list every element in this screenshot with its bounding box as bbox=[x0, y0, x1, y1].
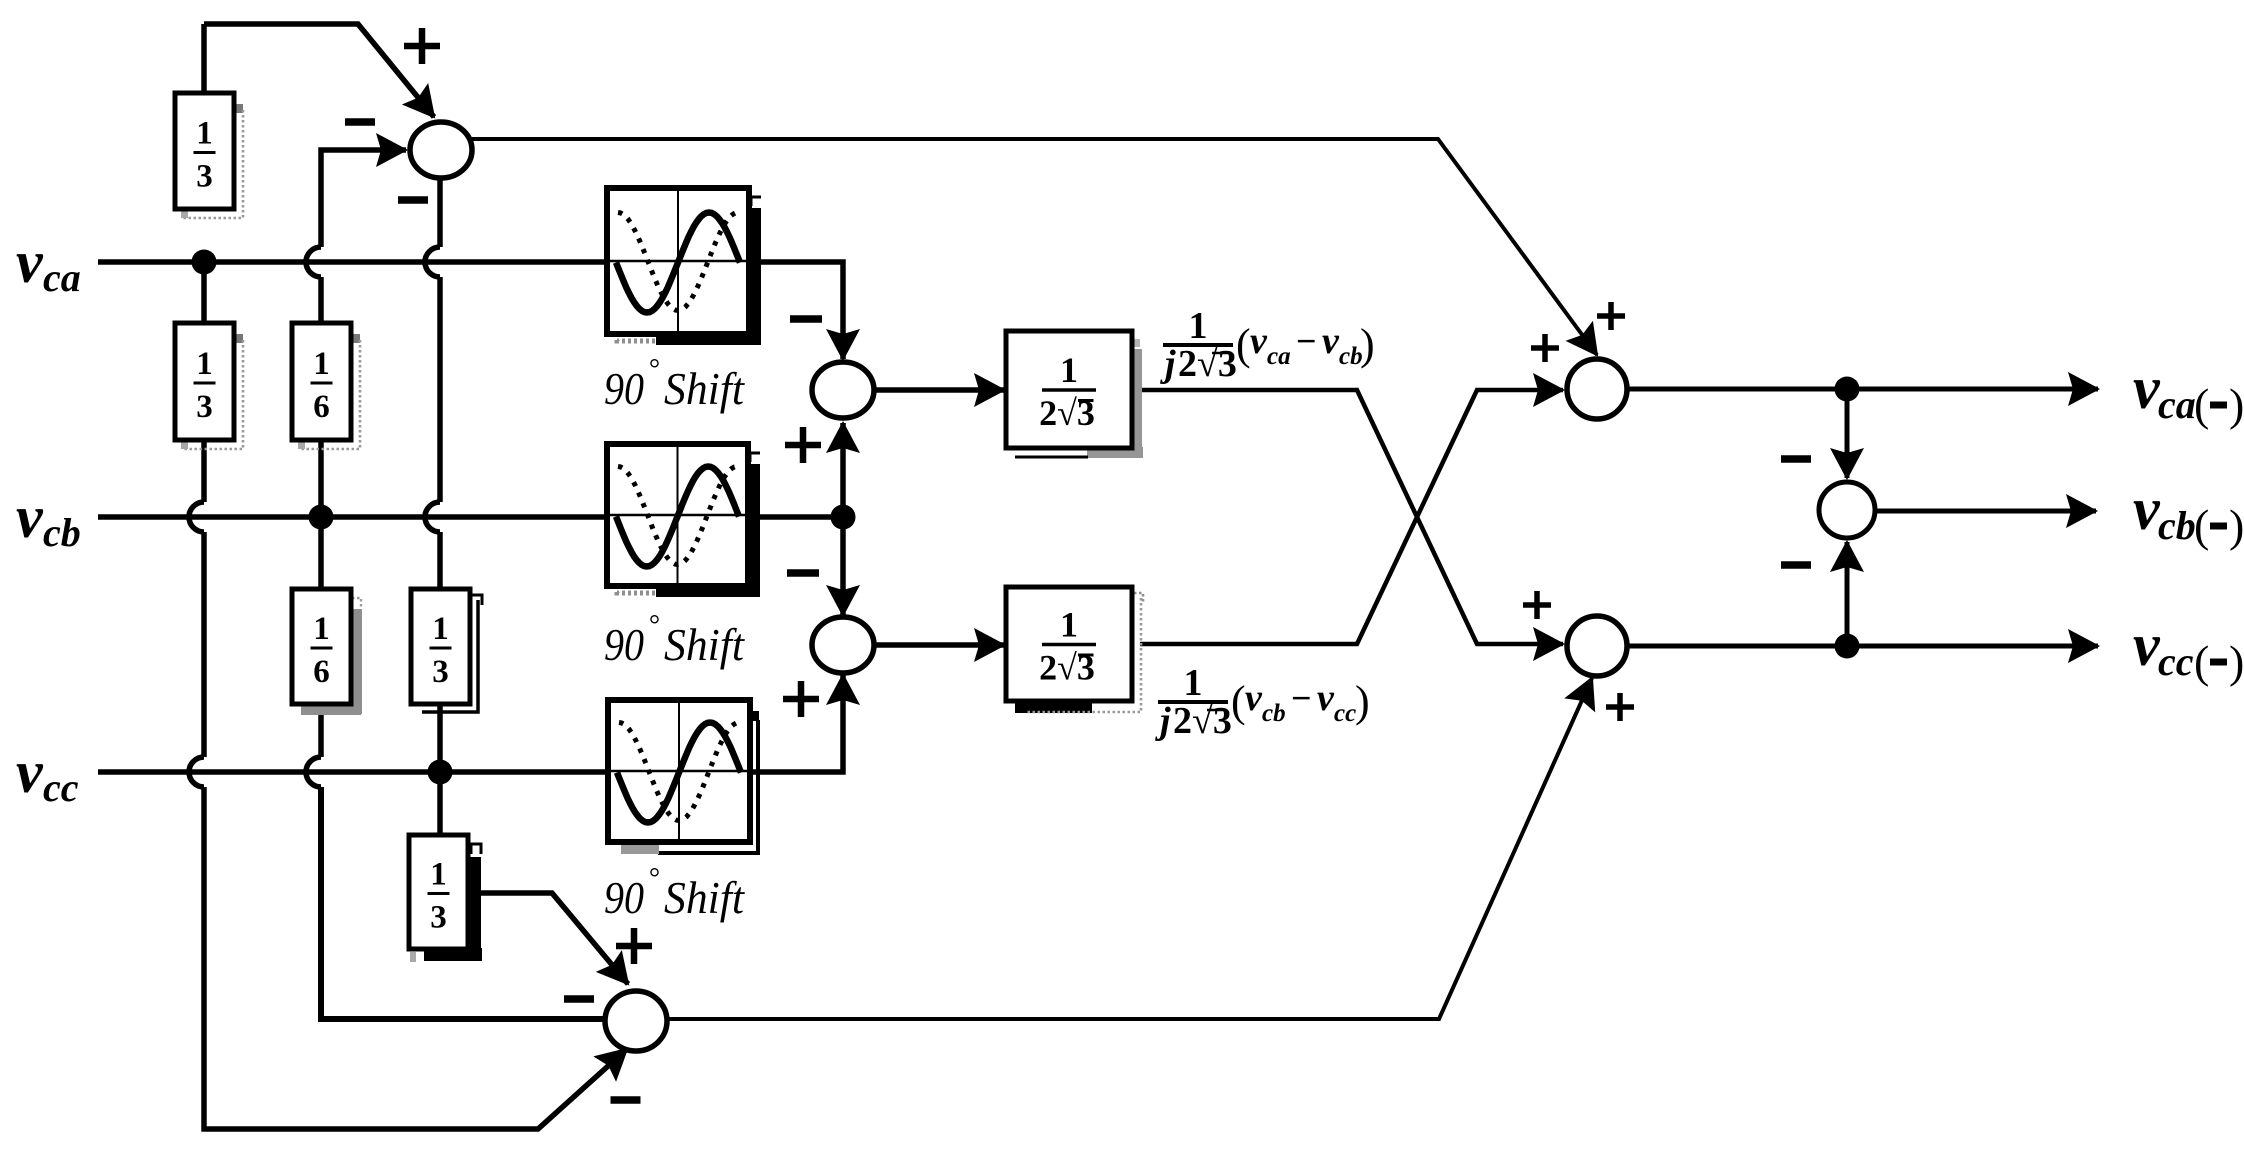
svg-text:): ) bbox=[2229, 636, 2244, 687]
wire column2 hop over v_ca bbox=[306, 247, 321, 277]
sign minus S7 bottom input bbox=[1781, 561, 1811, 569]
gain block K3 value 1/6 bbox=[292, 323, 360, 449]
svg-text:v: v bbox=[1250, 320, 1268, 362]
wire G2 output crossing up into S5 (+) bbox=[1140, 390, 1563, 644]
node v_ca/column1 junction bbox=[192, 250, 217, 275]
svg-text:cb: cb bbox=[2158, 503, 2196, 548]
wire S7 output to v_cb(-) bbox=[1875, 509, 2096, 514]
node v_cb/S2-S3 branch junction bbox=[831, 505, 856, 530]
wire S1 output long line to S5 (+) bbox=[469, 139, 1597, 355]
svg-text:3: 3 bbox=[196, 389, 213, 425]
wire column1 top feed to S1 (+) bbox=[204, 24, 434, 208]
90-degree shift block B2 bbox=[607, 444, 760, 597]
sign minus S1 bottom output bbox=[398, 196, 428, 204]
summing junction S6 bbox=[1567, 616, 1627, 676]
svg-text:1: 1 bbox=[432, 611, 449, 647]
svg-text:2√3: 2√3 bbox=[1173, 700, 1232, 742]
node B on v_cc(-) line bbox=[1835, 634, 1860, 659]
90-degree shift block B3 bbox=[608, 700, 759, 854]
svg-text:Shift: Shift bbox=[664, 364, 745, 414]
svg-text:1: 1 bbox=[1184, 662, 1203, 704]
wire G1 output crossing down into S6 (+) bbox=[1140, 390, 1563, 644]
svg-text:v: v bbox=[2133, 355, 2161, 421]
gain block G1 value 1/(2sqrt3) bbox=[1006, 331, 1143, 458]
sign plus S6 left input bbox=[1523, 591, 1551, 619]
svg-text:(: ( bbox=[2194, 379, 2209, 430]
sign minus S3 top input bbox=[787, 569, 819, 577]
label 90deg Shift for B3 bbox=[604, 863, 745, 923]
svg-text:v: v bbox=[16, 484, 44, 550]
svg-text:): ) bbox=[2229, 500, 2244, 551]
svg-text:6: 6 bbox=[313, 654, 330, 690]
wire v_cb bus bbox=[98, 514, 846, 520]
svg-text:): ) bbox=[1355, 677, 1370, 726]
svg-text:1: 1 bbox=[313, 611, 330, 647]
wire column2 up into S1 (-) bbox=[321, 150, 406, 247]
svg-text:cc: cc bbox=[1334, 700, 1356, 727]
svg-text:(: ( bbox=[1231, 677, 1246, 726]
svg-text:6: 6 bbox=[313, 389, 330, 425]
wire column1: v_ca junction down through gain 1/3 to bottom corner and into S4 (-) bbox=[189, 262, 627, 1129]
svg-text:°: ° bbox=[648, 610, 659, 641]
node v_cb/column2 junction bbox=[309, 505, 334, 530]
gain block G2 value 1/(2sqrt3) bbox=[1006, 587, 1143, 713]
svg-text:°: ° bbox=[648, 863, 659, 894]
svg-text:(: ( bbox=[2194, 500, 2209, 551]
90-degree shift block B1 bbox=[607, 188, 761, 345]
svg-text:90: 90 bbox=[604, 620, 644, 670]
gain block K5 value 1/3 bbox=[411, 589, 482, 712]
wire v_cb to summing junction S2 (up) bbox=[840, 423, 846, 517]
wire S4 output long line up into S6 (+) bbox=[667, 678, 1592, 1019]
wire v_cc bus bbox=[98, 675, 843, 772]
label 90deg Shift for B2 bbox=[604, 610, 745, 670]
svg-text:3: 3 bbox=[430, 900, 447, 936]
svg-text:3: 3 bbox=[196, 159, 213, 195]
svg-text:90: 90 bbox=[604, 364, 644, 414]
sign minus S4 lower diagonal bbox=[611, 1096, 641, 1104]
svg-text:°: ° bbox=[648, 354, 659, 385]
svg-text:2√3: 2√3 bbox=[1178, 343, 1237, 385]
svg-text:v: v bbox=[16, 739, 44, 805]
svg-text:ca: ca bbox=[1267, 343, 1291, 370]
sign minus S4 left input bbox=[564, 995, 594, 1003]
svg-text:cb: cb bbox=[1262, 700, 1286, 727]
summing junction S2 bbox=[812, 362, 874, 418]
sign plus S1 diagonal input bbox=[404, 28, 440, 64]
wire gain K6 output diagonal into S4 (+) bbox=[467, 893, 628, 984]
svg-text:): ) bbox=[2229, 379, 2244, 430]
svg-text:(: ( bbox=[2194, 636, 2209, 687]
svg-text:1: 1 bbox=[1060, 605, 1078, 645]
svg-text:v: v bbox=[16, 229, 44, 295]
svg-text:3: 3 bbox=[432, 654, 449, 690]
gain block K2 value 1/3 bbox=[175, 323, 243, 449]
sign plus S5 diagonal input bbox=[1597, 302, 1625, 330]
svg-text:ca: ca bbox=[2158, 382, 2196, 427]
wire node B up into S7 (-) bbox=[1845, 542, 1850, 646]
node label v_ca input bbox=[16, 229, 81, 300]
node label v_cb(-) output bbox=[2133, 476, 2244, 551]
svg-text:1: 1 bbox=[313, 346, 330, 382]
svg-text:Shift: Shift bbox=[664, 620, 745, 670]
gain block K4 value 1/6 bbox=[292, 589, 362, 715]
svg-text:1: 1 bbox=[196, 116, 213, 152]
sign plus S2 bottom input bbox=[785, 427, 821, 463]
node label v_ca(-) output bbox=[2133, 355, 2244, 430]
wire v_ca bus bbox=[98, 262, 843, 359]
wire S6 output to v_cc(-) bbox=[1627, 644, 2098, 649]
wire S3 output into gain G2 bbox=[874, 642, 1004, 648]
wire node A down into S7 (-) bbox=[1845, 389, 1850, 478]
node label v_cc input bbox=[16, 739, 79, 810]
svg-text:cb: cb bbox=[43, 510, 81, 555]
svg-text:v: v bbox=[1317, 677, 1335, 719]
formula label 1/(j2sqrt3)(v_cb - v_cc) bbox=[1155, 662, 1370, 742]
node v_cc/column3 junction bbox=[428, 760, 453, 785]
gain block K1 value 1/3 bbox=[175, 93, 243, 218]
svg-text:(: ( bbox=[1236, 320, 1251, 369]
svg-text:): ) bbox=[1360, 320, 1375, 369]
node label v_cb input bbox=[16, 484, 81, 555]
svg-text:1: 1 bbox=[1060, 350, 1078, 390]
svg-text:ca: ca bbox=[43, 255, 81, 300]
summing junction S3 bbox=[812, 617, 874, 673]
svg-text:1: 1 bbox=[196, 346, 213, 382]
wire column3 from S1 bottom down through 1/3 blocks bbox=[425, 178, 440, 835]
sign plus S5 left input bbox=[1531, 334, 1559, 362]
wire S2 output into gain G1 bbox=[874, 387, 1004, 393]
sign plus S3 bottom input bbox=[783, 681, 819, 717]
svg-text:v: v bbox=[2133, 476, 2161, 542]
wire S5 output to v_ca(-) bbox=[1627, 387, 2098, 392]
sign plus S6 diagonal input bbox=[1606, 693, 1634, 721]
label 90deg Shift for B1 bbox=[604, 354, 745, 414]
summing junction S7 bbox=[1819, 482, 1875, 538]
sign plus S4 upper diagonal bbox=[616, 928, 652, 964]
sign minus S7 top input bbox=[1781, 455, 1811, 463]
svg-text:1: 1 bbox=[1189, 305, 1208, 347]
svg-text:90: 90 bbox=[604, 873, 644, 923]
svg-text:v: v bbox=[2133, 612, 2161, 678]
sign minus S1 left input bbox=[345, 118, 375, 126]
summing junction S5 bbox=[1567, 359, 1627, 419]
svg-text:Shift: Shift bbox=[664, 873, 745, 923]
wire column2 down through 1/6 blocks to S4 left input bbox=[306, 277, 605, 1019]
node A on v_ca(-) line bbox=[1835, 377, 1860, 402]
svg-text:1: 1 bbox=[430, 857, 447, 893]
summing junction S1 bbox=[410, 122, 472, 178]
summing junction S4 bbox=[605, 991, 667, 1051]
node label v_cc(-) output bbox=[2133, 612, 2244, 687]
gain block K6 value 1/3 bbox=[409, 835, 482, 962]
wire v_cb to summing junction S3 (down) bbox=[840, 517, 846, 615]
svg-text:cc: cc bbox=[43, 765, 79, 810]
svg-text:v: v bbox=[1322, 320, 1340, 362]
sign minus S2 top input bbox=[790, 315, 822, 323]
svg-text:v: v bbox=[1245, 677, 1263, 719]
svg-text:−: − bbox=[1296, 321, 1317, 361]
svg-text:−: − bbox=[1291, 678, 1312, 718]
svg-text:cc: cc bbox=[2158, 639, 2194, 684]
formula label 1/(j2sqrt3)(v_ca - v_cb) bbox=[1160, 305, 1375, 385]
